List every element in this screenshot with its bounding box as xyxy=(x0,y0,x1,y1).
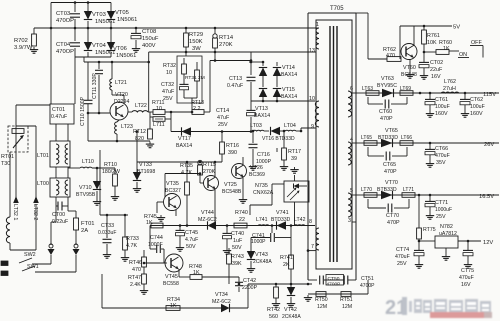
svg-text:CT45: CT45 xyxy=(185,230,198,236)
svg-text:R743: R743 xyxy=(231,254,244,260)
svg-text:L741: L741 xyxy=(256,217,268,223)
svg-text:0.033uF: 0.033uF xyxy=(98,230,116,236)
svg-text:470OP: 470OP xyxy=(56,18,74,24)
svg-text:3W: 3W xyxy=(192,46,201,52)
svg-text:RT50: RT50 xyxy=(315,297,328,303)
svg-text:VT65: VT65 xyxy=(385,128,398,134)
svg-text:4.7K: 4.7K xyxy=(126,243,137,249)
svg-text:BAX14: BAX14 xyxy=(176,143,192,149)
svg-text:BTV95B: BTV95B xyxy=(76,192,96,198)
svg-text:VT44: VT44 xyxy=(201,210,214,216)
svg-text:LT01: LT01 xyxy=(37,153,49,159)
svg-text:C716: C716 xyxy=(257,152,270,158)
svg-text:CT08: CT08 xyxy=(142,29,156,35)
svg-text:CT33: CT33 xyxy=(101,223,114,229)
svg-text:T705: T705 xyxy=(330,6,344,12)
svg-text:180/2W: 180/2W xyxy=(102,169,120,175)
svg-text:1K: 1K xyxy=(146,220,153,226)
svg-text:9: 9 xyxy=(311,124,314,130)
svg-text:1000uF: 1000uF xyxy=(435,207,452,213)
svg-text:VT35: VT35 xyxy=(166,181,179,187)
svg-text:CT03: CT03 xyxy=(56,11,70,17)
svg-text:CT40: CT40 xyxy=(231,231,244,237)
svg-text:16V: 16V xyxy=(461,282,471,288)
svg-text:VT15: VT15 xyxy=(282,87,295,93)
svg-text:47uF: 47uF xyxy=(162,89,175,95)
svg-text:12M: 12M xyxy=(317,304,327,310)
svg-text:12M: 12M xyxy=(342,304,352,310)
svg-text:4.7K: 4.7K xyxy=(181,170,192,176)
svg-text:RT32: RT32 xyxy=(163,63,176,69)
svg-text:100uF: 100uF xyxy=(470,104,485,110)
svg-text:RT75: RT75 xyxy=(423,227,436,233)
svg-text:150K: 150K xyxy=(189,39,203,45)
svg-text:0.47uF: 0.47uF xyxy=(227,83,243,89)
svg-text:470uF: 470uF xyxy=(435,153,450,159)
svg-text:2.4K: 2.4K xyxy=(130,282,141,288)
svg-text:470OP: 470OP xyxy=(56,49,74,55)
svg-text:RT01: RT01 xyxy=(1,154,14,160)
svg-text:160V: 160V xyxy=(435,111,448,117)
svg-text:270K: 270K xyxy=(203,169,216,175)
svg-text:50V: 50V xyxy=(232,245,242,251)
svg-text:3: 3 xyxy=(348,218,351,224)
svg-text:LT42: LT42 xyxy=(294,217,306,223)
svg-text:CT70: CT70 xyxy=(386,213,399,219)
svg-text:LT66: LT66 xyxy=(401,135,412,141)
svg-text:39: 39 xyxy=(291,156,297,162)
svg-text:BTD33D: BTD33D xyxy=(378,135,398,141)
svg-text:VT04: VT04 xyxy=(92,43,107,49)
svg-text:2200P: 2200P xyxy=(242,285,258,291)
svg-text:LT63: LT63 xyxy=(362,86,373,92)
svg-text:VT43: VT43 xyxy=(255,252,268,258)
svg-text:RT51: RT51 xyxy=(340,297,353,303)
svg-text:RT17: RT17 xyxy=(288,149,301,155)
svg-text:1: 1 xyxy=(316,22,319,28)
svg-text:RT12: RT12 xyxy=(133,129,146,135)
svg-text:2CK48A: 2CK48A xyxy=(282,314,301,320)
svg-text:SW1: SW1 xyxy=(27,264,39,270)
svg-text:22uF: 22uF xyxy=(430,67,443,73)
svg-text:T30: T30 xyxy=(1,161,10,167)
svg-text:CT74: CT74 xyxy=(396,247,409,253)
svg-text:CT11 330P: CT11 330P xyxy=(92,73,98,99)
svg-text:470P: 470P xyxy=(384,169,397,175)
svg-text:VT42: VT42 xyxy=(284,307,297,313)
svg-text:RT29: RT29 xyxy=(189,32,203,38)
svg-text:VT13: VT13 xyxy=(255,106,268,112)
svg-text:25V: 25V xyxy=(397,261,407,267)
svg-text:R702: R702 xyxy=(14,38,28,44)
svg-text:1N5061: 1N5061 xyxy=(95,19,115,25)
svg-text:1K: 1K xyxy=(443,46,450,52)
svg-text:LT00: LT00 xyxy=(37,181,49,187)
svg-text:BTD33D: BTD33D xyxy=(271,217,291,223)
svg-text:2A: 2A xyxy=(81,228,88,234)
svg-text:13: 13 xyxy=(309,48,315,54)
svg-text:BT1698: BT1698 xyxy=(137,169,155,175)
svg-text:26V: 26V xyxy=(484,142,494,148)
svg-text:4700P: 4700P xyxy=(327,282,341,288)
svg-text:16.5V: 16.5V xyxy=(479,194,494,200)
svg-text:1000F: 1000F xyxy=(148,242,163,248)
svg-text:470: 470 xyxy=(132,267,141,273)
svg-text:560: 560 xyxy=(269,314,278,320)
svg-text:16V: 16V xyxy=(431,74,441,80)
svg-text:MZ-6C2: MZ-6C2 xyxy=(212,299,231,305)
svg-text:CT61: CT61 xyxy=(435,97,448,103)
svg-text:10K: 10K xyxy=(427,40,437,46)
svg-text:10: 10 xyxy=(156,106,162,112)
svg-text:BC327: BC327 xyxy=(165,188,181,194)
svg-text:470uF: 470uF xyxy=(395,254,410,260)
svg-text:CT02: CT02 xyxy=(430,60,443,66)
svg-text:25V: 25V xyxy=(218,122,228,128)
svg-text:LT21: LT21 xyxy=(115,80,127,86)
svg-text:VT26: VT26 xyxy=(250,165,263,171)
svg-text:470P: 470P xyxy=(387,220,400,226)
svg-text:39K: 39K xyxy=(232,261,242,267)
svg-text:CT62: CT62 xyxy=(470,97,483,103)
svg-text:BC558: BC558 xyxy=(163,281,179,287)
svg-text:35V: 35V xyxy=(436,160,446,166)
svg-text:2.2: 2.2 xyxy=(193,106,200,112)
svg-text:VT70: VT70 xyxy=(385,180,398,186)
svg-text:R733: R733 xyxy=(126,236,139,242)
svg-text:LT65: LT65 xyxy=(361,135,372,141)
svg-text:VT06: VT06 xyxy=(113,46,127,52)
svg-text:5V: 5V xyxy=(453,25,460,31)
svg-text:VT34: VT34 xyxy=(215,292,228,298)
svg-text:12V: 12V xyxy=(483,240,493,246)
svg-text:RT35: RT35 xyxy=(180,163,193,169)
svg-text:150uF: 150uF xyxy=(142,36,159,42)
svg-text:VT45: VT45 xyxy=(165,274,178,280)
svg-text:VT63: VT63 xyxy=(381,76,394,82)
svg-text:MZ-6C2: MZ-6C2 xyxy=(198,217,217,223)
svg-text:VT14: VT14 xyxy=(282,65,295,71)
svg-text:BC548B: BC548B xyxy=(222,189,242,195)
svg-text:LT23: LT23 xyxy=(121,124,133,130)
svg-text:L711: L711 xyxy=(153,122,165,128)
svg-text:1K: 1K xyxy=(193,270,200,276)
svg-text:RT16: RT16 xyxy=(226,143,239,149)
svg-text:FT01: FT01 xyxy=(81,221,95,227)
svg-text:CT51: CT51 xyxy=(361,276,374,282)
svg-text:5: 5 xyxy=(350,188,353,194)
svg-text:VT60: VT60 xyxy=(403,65,416,71)
svg-text:115V: 115V xyxy=(483,92,496,98)
svg-text:8: 8 xyxy=(309,219,312,225)
svg-text:N782: N782 xyxy=(440,224,453,230)
svg-text:3.9/7W: 3.9/7W xyxy=(14,45,33,51)
svg-text:CT04: CT04 xyxy=(56,42,71,48)
svg-text:VT25: VT25 xyxy=(224,182,237,188)
svg-text:0.47uF: 0.47uF xyxy=(51,114,67,120)
svg-text:V741: V741 xyxy=(276,210,289,216)
svg-text:LT10: LT10 xyxy=(82,159,94,165)
svg-text:BAX14: BAX14 xyxy=(281,94,297,100)
svg-text:CT65: CT65 xyxy=(383,162,396,168)
svg-text:CT10 1500P: CT10 1500P xyxy=(80,96,86,126)
svg-text:V710: V710 xyxy=(79,185,92,191)
svg-text:7: 7 xyxy=(311,244,314,250)
svg-text:390: 390 xyxy=(228,150,237,156)
svg-text:VT16 BTD33D: VT16 BTD33D xyxy=(262,136,295,142)
svg-text:47uF: 47uF xyxy=(217,115,230,121)
svg-text:400V: 400V xyxy=(142,43,156,49)
svg-text:1K: 1K xyxy=(170,303,177,309)
svg-text:CT71: CT71 xyxy=(435,200,448,206)
svg-text:LT32 2: LT32 2 xyxy=(32,204,38,220)
svg-text:BAX14: BAX14 xyxy=(254,113,270,119)
svg-text:LT70: LT70 xyxy=(361,187,372,193)
svg-text:1uF: 1uF xyxy=(233,238,243,244)
svg-text:1N5061: 1N5061 xyxy=(117,17,137,23)
svg-text:LT71: LT71 xyxy=(403,187,414,193)
svg-text:RT42: RT42 xyxy=(267,307,280,313)
svg-text:470: 470 xyxy=(386,53,395,59)
svg-text:LT69: LT69 xyxy=(400,86,411,92)
svg-text:CT60: CT60 xyxy=(379,109,392,115)
svg-text:VT05: VT05 xyxy=(115,10,129,16)
svg-text:2K: 2K xyxy=(283,262,290,268)
svg-text:VT03: VT03 xyxy=(92,12,106,18)
svg-text:BC369: BC369 xyxy=(249,172,265,178)
svg-text:LT22: LT22 xyxy=(135,103,147,109)
svg-text:10: 10 xyxy=(309,96,315,102)
svg-text:820: 820 xyxy=(135,136,144,142)
svg-text:100uF: 100uF xyxy=(435,104,450,110)
svg-text:RT46: RT46 xyxy=(129,260,142,266)
svg-text:2CK48A: 2CK48A xyxy=(253,259,272,265)
svg-text:LT32 1: LT32 1 xyxy=(12,204,18,220)
svg-text:CT13: CT13 xyxy=(229,76,242,82)
svg-text:1000P: 1000P xyxy=(251,239,266,245)
svg-text:RT47: RT47 xyxy=(128,275,141,281)
svg-text:50V: 50V xyxy=(186,244,196,250)
svg-text:BAX14: BAX14 xyxy=(281,72,297,78)
svg-text:10: 10 xyxy=(166,70,172,76)
svg-text:RT31 2M: RT31 2M xyxy=(185,75,205,81)
svg-text:CT50: CT50 xyxy=(328,276,340,282)
svg-text:RT10: RT10 xyxy=(104,162,117,168)
svg-text:270K: 270K xyxy=(219,42,233,48)
svg-text:VT17: VT17 xyxy=(178,136,191,142)
svg-text:160V: 160V xyxy=(470,111,483,117)
svg-text:4: 4 xyxy=(350,137,353,143)
svg-text:470P: 470P xyxy=(380,116,393,122)
svg-text:BYV95C: BYV95C xyxy=(377,83,397,89)
svg-text:CT66: CT66 xyxy=(435,146,448,152)
svg-text:1N5061: 1N5061 xyxy=(116,53,136,59)
svg-text:R740: R740 xyxy=(235,210,248,216)
svg-text:22: 22 xyxy=(239,217,245,223)
svg-text:4.7uF: 4.7uF xyxy=(185,237,198,243)
svg-text:470uF: 470uF xyxy=(459,275,474,281)
svg-text:L762: L762 xyxy=(444,79,456,85)
svg-text:6: 6 xyxy=(350,86,353,92)
svg-text:BTB33D: BTB33D xyxy=(377,187,397,193)
svg-text:CT32: CT32 xyxy=(161,82,174,88)
svg-text:CT14: CT14 xyxy=(216,108,229,114)
svg-text:VT33: VT33 xyxy=(139,162,152,168)
svg-text:C744: C744 xyxy=(150,235,163,241)
svg-text:25V: 25V xyxy=(163,96,173,102)
svg-text:CNX62A: CNX62A xyxy=(253,190,274,196)
svg-text:CT00: CT00 xyxy=(52,212,65,218)
svg-text:25V: 25V xyxy=(436,214,446,220)
svg-text:LT03: LT03 xyxy=(250,123,262,129)
svg-text:27uH: 27uH xyxy=(443,86,456,92)
svg-text:CT01: CT01 xyxy=(52,107,65,113)
svg-text:CT42: CT42 xyxy=(243,278,256,284)
svg-text:LT04: LT04 xyxy=(284,123,296,129)
svg-text:R741: R741 xyxy=(280,255,293,261)
svg-text:SW2: SW2 xyxy=(24,252,36,258)
svg-text:CT75: CT75 xyxy=(461,268,474,274)
svg-text:D2294: D2294 xyxy=(114,99,129,105)
svg-text:N735: N735 xyxy=(255,183,268,189)
svg-text:R761: R761 xyxy=(427,33,440,39)
svg-text:RT14: RT14 xyxy=(219,35,234,41)
